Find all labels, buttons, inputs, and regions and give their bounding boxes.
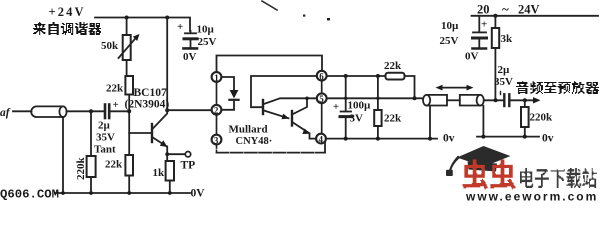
label 22k xyxy=(106,83,124,95)
svg-text:22k: 22k xyxy=(105,159,123,171)
wire collector to pin2 xyxy=(167,109,212,111)
svg-text:1k: 1k xyxy=(153,167,166,179)
label 22k lower xyxy=(105,159,123,171)
svg-text:+24V: +24V xyxy=(49,5,84,19)
watermark logo mortarboard cap xyxy=(446,146,511,176)
svg-text:5: 5 xyxy=(319,94,324,104)
wire +24V rail xyxy=(95,18,190,32)
resistor 22k horizontal xyxy=(386,73,415,99)
transistor Q1 BC107 (2N3904) xyxy=(129,110,167,146)
shielded cable output 2 xyxy=(460,95,484,106)
optocoupler dashed box bottom edge xyxy=(217,152,326,154)
wire pin6 to T1 base xyxy=(251,76,317,107)
svg-text:35V: 35V xyxy=(96,132,115,144)
svg-text:35V: 35V xyxy=(494,76,513,88)
label 220k output xyxy=(530,112,554,124)
svg-text:+: + xyxy=(481,19,487,31)
svg-text:6: 6 xyxy=(319,72,324,82)
label af xyxy=(0,107,11,119)
potentiometer 50k xyxy=(119,18,138,77)
watermark logo 电子下载站 xyxy=(520,168,597,188)
svg-text:4: 4 xyxy=(319,134,324,144)
test point TP xyxy=(167,152,191,157)
svg-text:3k: 3k xyxy=(501,33,514,45)
watermark logo 虫虫 red xyxy=(463,160,516,190)
wire right ground segment xyxy=(477,136,539,138)
optocoupler dashed box right edge xyxy=(321,81,323,134)
resistor 220k output xyxy=(521,100,529,136)
LED D1 of optocoupler xyxy=(221,77,238,110)
label 22k horizontal xyxy=(384,60,402,72)
svg-text:0v: 0v xyxy=(542,133,554,145)
phototransistor T2 xyxy=(292,98,316,138)
node junctions pin5 row xyxy=(344,96,417,100)
label 1k xyxy=(153,167,166,179)
capacitor 2u 35V output xyxy=(501,92,510,107)
label BC107 xyxy=(134,87,167,99)
50k wiper arrowhead xyxy=(133,34,140,41)
node BC107 collector junction xyxy=(165,108,169,112)
wire shield to ground xyxy=(62,117,64,193)
svg-text:0V: 0V xyxy=(191,188,206,200)
svg-text:25V: 25V xyxy=(198,36,217,48)
pin 5 xyxy=(317,93,327,103)
resistor 22k vertical (pin5 load) xyxy=(374,76,381,139)
capacitor 10u 25V (right) xyxy=(473,16,487,49)
svg-text:3V: 3V xyxy=(350,113,364,125)
svg-text:1: 1 xyxy=(214,73,219,83)
svg-text:TP: TP xyxy=(181,160,196,172)
svg-text:3: 3 xyxy=(214,135,219,145)
svg-text:+: + xyxy=(333,102,339,113)
wire pin6 row right xyxy=(327,75,386,77)
label 20~24V xyxy=(477,2,540,17)
svg-text:10µ: 10µ xyxy=(197,24,215,36)
node junctions pin4 row xyxy=(344,137,432,141)
node junctions ground bus xyxy=(61,191,172,195)
label + 10u 25V 0V xyxy=(177,21,217,63)
pin 1 xyxy=(212,72,222,82)
node junction 220k tap xyxy=(89,109,93,113)
label + 2u 35V Tant xyxy=(94,99,119,156)
svg-text:+: + xyxy=(113,99,119,111)
optocoupler dashed box left edge xyxy=(216,82,218,135)
node junctions pin6 row xyxy=(344,74,380,78)
T1 emitter arrowhead xyxy=(282,114,290,120)
wire pin4 row right xyxy=(326,138,437,140)
wire output with arrow xyxy=(509,99,535,101)
capacitor 10u 25V (left) xyxy=(184,31,198,48)
svg-text:20: 20 xyxy=(477,3,490,17)
svg-text:Tant: Tant xyxy=(94,144,116,156)
svg-text:2µ: 2µ xyxy=(98,120,111,132)
wire pin5 row right xyxy=(327,97,423,99)
shielded cable input xyxy=(31,106,66,117)
wire af input xyxy=(13,110,32,112)
stray scan dot xyxy=(327,18,330,20)
label (2N3904) xyxy=(125,99,170,111)
stray scan dot 2 xyxy=(303,15,305,17)
svg-text:22k: 22k xyxy=(384,60,402,72)
phototransistor T1 xyxy=(263,98,317,118)
svg-text:100µ: 100µ xyxy=(348,100,372,112)
node junction 220k tap output xyxy=(523,98,527,102)
label 3k xyxy=(501,33,514,45)
node junction TP xyxy=(165,152,169,156)
node junction rail-3k xyxy=(493,14,497,18)
svg-text:25V: 25V xyxy=(440,35,459,47)
label 来自调谐器 (from tuner) xyxy=(33,22,101,35)
node junction cap-base xyxy=(127,109,131,113)
wire pin1 to pin6 top link xyxy=(217,56,323,73)
wire 20-24V rail xyxy=(472,15,599,17)
pin 2 xyxy=(212,105,222,115)
svg-text:0V: 0V xyxy=(465,51,479,63)
node junction 3k-output xyxy=(494,98,498,102)
svg-text:BC107: BC107 xyxy=(134,87,167,99)
wire between cables xyxy=(447,99,460,101)
label +24V xyxy=(49,5,84,19)
node junctions right ground xyxy=(481,135,526,139)
svg-text:CNY48·: CNY48· xyxy=(236,136,273,147)
LED triangle xyxy=(230,90,239,98)
pin 4 xyxy=(316,134,326,144)
svg-text:24V: 24V xyxy=(518,3,540,17)
stray scan mark diagonal xyxy=(262,1,277,10)
pin 6 xyxy=(317,71,327,81)
node junction rail-collector line xyxy=(165,16,169,20)
label 220k rotated xyxy=(75,157,87,181)
capacitor 2u 35V Tant xyxy=(105,105,129,119)
svg-text:Q606.COM: Q606.COM xyxy=(0,188,59,202)
svg-text:22k: 22k xyxy=(106,83,124,95)
svg-text:220k: 220k xyxy=(530,112,554,124)
label 0v right xyxy=(542,133,554,145)
node T2 collector junction xyxy=(305,97,309,101)
shielded cable output 1 xyxy=(423,95,447,106)
label TP xyxy=(181,160,196,172)
svg-text:(2N3904): (2N3904) xyxy=(125,99,170,111)
output arrowhead xyxy=(533,97,541,103)
svg-text:22k: 22k xyxy=(384,113,402,125)
svg-text:Mullard: Mullard xyxy=(229,124,268,136)
resistor 220k (input) xyxy=(87,111,96,193)
label CNY48 xyxy=(236,136,273,147)
wire rail to BC107 collector xyxy=(166,18,168,111)
label + 100u 3V xyxy=(333,100,371,125)
pin 3 xyxy=(212,135,222,145)
svg-text:10µ: 10µ xyxy=(441,20,459,32)
resistor 3k xyxy=(492,16,499,101)
svg-text:50k: 50k xyxy=(101,40,119,52)
resistor 22k (base feed) xyxy=(125,76,133,155)
label 22k vertical xyxy=(384,113,402,125)
wire oval2 shield to ground xyxy=(482,106,484,137)
svg-text:2: 2 xyxy=(214,106,219,116)
label 0v left of output xyxy=(443,133,455,145)
optocoupler dashed box bottom-right riser xyxy=(324,143,326,153)
double-headed arrow (movable) xyxy=(441,87,468,89)
svg-text:~: ~ xyxy=(502,2,509,17)
svg-text:220k: 220k xyxy=(75,157,87,181)
svg-text:0v: 0v xyxy=(443,133,455,145)
label Mullard xyxy=(229,124,268,136)
capacitor 100u 3V xyxy=(340,76,352,139)
wire oval2 to cap xyxy=(484,99,504,101)
node junction rail-50k xyxy=(125,16,129,20)
label 50k xyxy=(101,40,119,52)
label 0V xyxy=(191,188,206,200)
watermark www.eeworm.com xyxy=(465,190,598,204)
resistor 22k (base to ground) xyxy=(125,155,133,193)
watermark Q606.COM xyxy=(0,188,59,202)
svg-text:2µ: 2µ xyxy=(498,64,511,76)
resistor 1k xyxy=(166,147,174,194)
svg-text:+: + xyxy=(177,21,183,33)
Q1 emitter arrowhead xyxy=(160,140,168,147)
wire input to cap xyxy=(67,110,104,112)
wire oval1 shield to ground xyxy=(429,106,431,139)
T2 emitter arrowhead xyxy=(302,129,310,135)
label 2u 35V output cap xyxy=(494,64,513,88)
svg-text:0V: 0V xyxy=(183,51,197,63)
label 音频至预放器 (audio to preamp) xyxy=(516,81,599,94)
wire 0V ground bus xyxy=(55,192,190,194)
svg-text:af: af xyxy=(0,107,11,119)
label + 10u 25V 0V right xyxy=(440,19,488,63)
svg-text:www.eeworm.com: www.eeworm.com xyxy=(465,190,598,202)
